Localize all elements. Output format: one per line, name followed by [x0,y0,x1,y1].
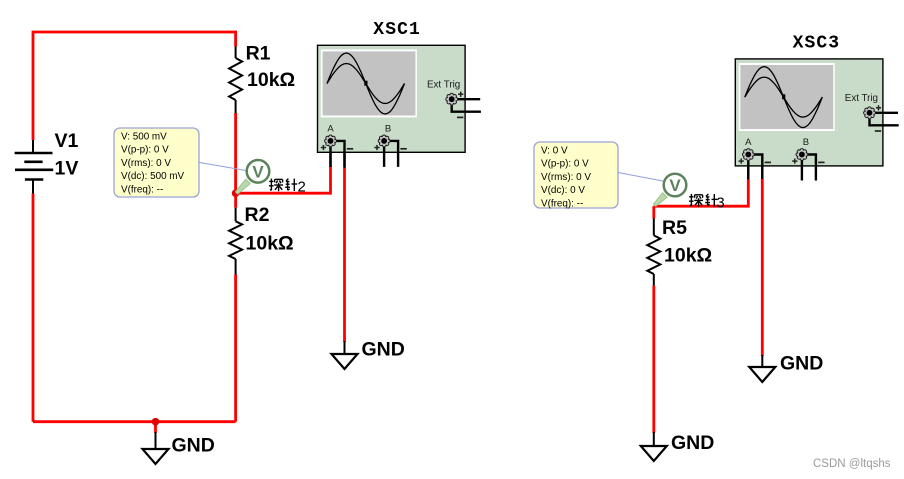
svg-text:3: 3 [716,194,724,211]
svg-text:GND: GND [362,339,405,361]
label XSC3 [793,34,841,54]
svg-text:V: V [252,163,264,182]
svg-text:10kΩ: 10kΩ [664,245,712,267]
junction probe node 2 [232,189,240,197]
svg-text:B: B [803,137,809,148]
svg-text:B: B [385,124,391,135]
wire XSC3 A+ black lead [747,166,749,180]
label R2 value 10kΩ [246,233,294,255]
wire R2 top red [234,193,237,208]
svg-text:V(dc): 500 mV: V(dc): 500 mV [121,171,185,182]
svg-text:Ext Trig: Ext Trig [845,93,878,104]
label GND2 [362,339,405,361]
svg-text:V(rms): 0 V: V(rms): 0 V [121,158,171,169]
wire XSC3 A- black lead [761,166,763,179]
label R1 [246,43,271,65]
svg-text:V(dc): 0 V: V(dc): 0 V [541,185,585,196]
wire R1 to probe node [234,113,237,193]
wire ground stub red [154,422,157,433]
svg-text:GND: GND [780,353,823,375]
resistor R5 [647,219,660,286]
ground GND2 (XSC1) [332,341,358,369]
svg-text:XSC1: XSC1 [373,20,421,40]
wire XSC3 A+ red to probe corner [654,180,749,207]
XSC3 channel B pin [792,137,824,180]
resistor R1 [229,47,242,114]
oscilloscope XSC3 body [735,59,883,166]
wire R5 bottom red [652,286,655,433]
svg-text:XSC3: XSC3 [793,34,841,54]
probe 2 measurement tooltip [114,128,199,197]
wire XSC1 A+ black lead [329,152,331,167]
XSC1 Ext Trig pin [427,79,481,117]
leader line to probe 2 [199,162,246,170]
svg-text:R5: R5 [662,217,687,239]
wire bottom horizontal [33,420,236,423]
wire XSC1 A- red to ground [343,168,346,342]
wire probe node to XSC1 A+ [236,167,331,194]
label V1 [55,130,79,152]
XSC3 waveform channel B [745,77,823,117]
svg-text:V(freq): --: V(freq): -- [541,198,583,209]
ground GND1 [143,432,169,464]
svg-text:V(p-p): 0 V: V(p-p): 0 V [121,145,169,156]
svg-text:1V: 1V [55,158,79,180]
label GND4 [780,353,823,375]
label probe 探针2 [269,178,306,195]
svg-text:V: 500 mV: V: 500 mV [121,132,167,143]
wire V1+ to R1 top [33,32,236,140]
label XSC1 [373,20,421,40]
label V1 value 1V [55,158,79,180]
wire R5 top red [652,206,655,218]
svg-text:CSDN @ltqshs: CSDN @ltqshs [813,458,891,470]
wire V1- down [32,194,35,422]
svg-text:Ext Trig: Ext Trig [427,79,460,90]
probe 2 (voltage probe) [235,160,269,194]
wire XSC3 A- red to ground [761,179,764,356]
svg-text:V(rms): 0 V: V(rms): 0 V [541,172,591,183]
wire XSC1 A- black lead [343,152,345,168]
svg-text:V: 0 V: V: 0 V [541,146,568,157]
label R5 [662,217,687,239]
svg-text:2: 2 [298,178,306,195]
svg-text:V(p-p): 0 V: V(p-p): 0 V [541,159,589,170]
XSC3 waveform channel A [745,67,823,128]
XSC3 screen [739,63,835,131]
wire R2 bottom red [234,275,237,422]
label probe 探针3 [689,194,725,211]
leader line to probe 3 [618,173,663,182]
junction ground node [152,418,160,426]
label R2 [245,204,270,226]
voltage source V1 [15,140,54,194]
watermark CSDN [813,458,891,470]
ground GND3 (R5) [641,432,667,461]
resistor R2 [229,208,242,275]
oscilloscope XSC1 body [318,45,466,152]
svg-text:V: V [669,176,681,195]
probe 3 (voltage probe) [653,174,686,207]
XSC3 channel A pin [739,137,771,180]
svg-text:A: A [745,137,752,148]
svg-text:V1: V1 [55,130,79,152]
svg-text:R2: R2 [245,204,270,226]
label R1 value 10kΩ [247,69,295,91]
XSC1 channel B pin [374,124,406,167]
svg-text:10kΩ: 10kΩ [247,69,295,91]
XSC3 Ext Trig pin [845,93,899,131]
ground GND4 (XSC3) [749,355,775,382]
label GND1 [172,435,215,457]
svg-text:GND: GND [671,432,714,454]
XSC1 screen [321,49,417,117]
svg-text:V(freq): --: V(freq): -- [121,184,163,195]
label R5 value 10kΩ [664,245,712,267]
XSC1 waveform channel B [327,64,405,104]
label GND3 [671,432,714,454]
XSC1 waveform channel A [327,53,405,114]
XSC1 channel A pin [321,124,353,167]
probe 3 measurement tooltip [534,142,618,209]
svg-text:10kΩ: 10kΩ [246,233,294,255]
svg-text:A: A [327,124,334,135]
svg-text:R1: R1 [246,43,271,65]
svg-text:GND: GND [172,435,215,457]
